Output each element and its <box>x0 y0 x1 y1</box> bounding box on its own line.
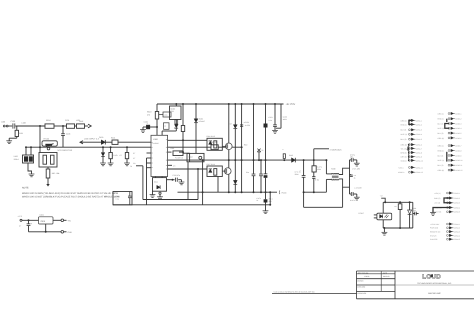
capacitor C100 (series) <box>12 123 14 128</box>
wire startup to IC top <box>175 128 177 131</box>
svg-text:GRN (1): GRN (1) <box>401 119 408 122</box>
svg-text:R10: R10 <box>244 144 247 147</box>
diode D101 on rail x=196 <box>195 103 197 105</box>
capacitor C111 box <box>113 192 132 205</box>
svg-text:NTC/VARISTOR: NTC/VARISTOR <box>58 149 73 152</box>
svg-text:CON1-12: CON1-12 <box>416 171 423 174</box>
svg-text:CON2-6: CON2-6 <box>455 137 461 140</box>
svg-text:CON4-4: CON4-4 <box>454 234 460 237</box>
svg-text:R117 C116: R117 C116 <box>207 163 215 166</box>
capacitor C110 + ground <box>156 126 158 128</box>
wire CON2 bracket <box>445 124 449 129</box>
svg-text:LINE: LINE <box>79 120 84 123</box>
svg-text:S-02 02-09-04 SCHEMATIC REV-: S-02 02-09-04 SCHEMATIC REV-B MACKIE-AMP… <box>274 291 315 294</box>
svg-text:ORG (6): ORG (6) <box>401 144 408 147</box>
svg-text:D103: D103 <box>289 154 293 157</box>
resistor network K100 box <box>39 153 57 168</box>
svg-text:+15V A: +15V A <box>398 166 404 169</box>
svg-text:CON1-8: CON1-8 <box>416 151 422 154</box>
svg-text:CON4-3: CON4-3 <box>454 231 460 234</box>
diode D103 on y=160.1 <box>292 158 296 163</box>
svg-text:C103: C103 <box>66 133 70 136</box>
svg-text:WHEN L90 IS NOT (GRN/BLK-FLK): WHEN L90 IS NOT (GRN/BLK-FLK) PLEASE R14… <box>22 196 120 199</box>
svg-text:GRN (1): GRN (1) <box>438 112 445 115</box>
wire R111 to Q102 box <box>183 152 190 154</box>
svg-text:CON1-5: CON1-5 <box>416 138 422 141</box>
svg-text:CON1-10: CON1-10 <box>416 159 423 162</box>
wire R105 lower stub <box>47 178 49 185</box>
svg-text:RT: RT <box>133 152 135 155</box>
svg-text:(+13.8V AUX: (+13.8V AUX <box>330 148 342 151</box>
transformer T100 aux winding box <box>155 177 157 178</box>
rail x=261 capacitor C118 <box>260 160 262 174</box>
svg-text:BLK (3): BLK (3) <box>401 129 407 132</box>
rail A x=303.6 with capacitor C124 <box>303 159 305 161</box>
wire snubber2 drop <box>217 177 219 193</box>
ground (aux right, via test point) <box>159 192 161 194</box>
wire primary bottom rail y=192.2 <box>304 191 327 193</box>
svg-text:C120: C120 <box>245 121 249 124</box>
svg-text:RED (2): RED (2) <box>401 123 408 126</box>
svg-text:GND: GND <box>68 231 73 234</box>
svg-text:C100: C100 <box>11 120 16 123</box>
svg-text:CON2-7: CON2-7 <box>455 145 461 148</box>
svg-text:ORG (6): ORG (6) <box>438 169 445 172</box>
wire return path A (y=204.8 long) <box>113 204 270 206</box>
svg-text:C121: C121 <box>269 116 273 119</box>
rail x=183 <box>182 103 184 105</box>
svg-text:CON3-2: CON3-2 <box>454 197 460 200</box>
svg-text:D101: D101 <box>199 118 203 121</box>
wire CON1 bracket top <box>409 120 413 124</box>
svg-text:L100: L100 <box>22 122 26 125</box>
wire right edge x=412.8 <box>412 202 414 228</box>
connector J100 AC input <box>3 125 5 127</box>
svg-text:C110: C110 <box>144 120 148 123</box>
svg-text:GND (2): GND (2) <box>434 197 441 200</box>
wire relay feed drop <box>39 126 41 153</box>
svg-text:CON1-7: CON1-7 <box>416 147 422 150</box>
resistor R111 <box>173 151 183 156</box>
svg-text:BLU (5): BLU (5) <box>438 164 444 167</box>
svg-text:R110: R110 <box>147 111 151 114</box>
svg-text:STATUS: STATUS <box>430 234 437 237</box>
net label S-GND <box>278 191 281 195</box>
zener Z1 <box>257 149 260 152</box>
wire primary pins <box>326 173 331 175</box>
net stub feedback top <box>381 198 385 202</box>
svg-text:WHT (4): WHT (4) <box>438 159 445 162</box>
wire CON1 bracket mid <box>408 145 410 161</box>
wire AC bus y=126 <box>8 125 12 127</box>
svg-text:J100: J100 <box>1 121 5 124</box>
resistor R105 <box>47 167 49 169</box>
wire +B bus y=104 <box>157 103 284 105</box>
svg-text:BRN (8): BRN (8) <box>401 151 408 154</box>
svg-text:NOTE:: NOTE: <box>22 187 29 190</box>
rail x=241.6 <box>241 103 243 105</box>
connector +5V out <box>61 219 64 222</box>
svg-text:R101: R101 <box>111 136 115 139</box>
svg-text:GRY (9): GRY (9) <box>401 156 408 159</box>
rail x=235.3 with diodes D107/D108 <box>234 103 236 105</box>
wire FB stub y=165.8 <box>136 165 143 167</box>
svg-text:CON1-4: CON1-4 <box>416 133 422 136</box>
svg-text:CON2-8: CON2-8 <box>455 149 461 152</box>
svg-text:MACKIE AMP: MACKIE AMP <box>428 292 441 295</box>
title block table rows <box>357 273 396 275</box>
svg-text:CON2-12: CON2-12 <box>455 169 462 172</box>
svg-text:CON3-1: CON3-1 <box>454 192 460 195</box>
svg-text:WHT (4): WHT (4) <box>438 127 445 130</box>
svg-text:Q102: Q102 <box>188 155 192 158</box>
svg-text:D100: D100 <box>99 136 103 139</box>
chassis ground (varistor) <box>28 163 32 174</box>
snubber box 1 (R116/C115/D105) <box>207 138 222 150</box>
capacitor C125 + ground, +17-18V out <box>350 159 352 161</box>
svg-text:C122: C122 <box>283 116 287 119</box>
wire secondary step bottom <box>339 179 350 187</box>
snubber box 2 (R117/C116/D106) <box>207 166 222 177</box>
connector GND out <box>61 231 64 234</box>
title block frame <box>357 270 474 272</box>
svg-text:R111: R111 <box>171 147 175 150</box>
transistor Q102 sub-circuit box <box>187 153 204 161</box>
svg-text:C?: C? <box>120 154 122 157</box>
diode D111 (aux rect) <box>157 185 160 189</box>
IC pin stubs left <box>147 152 152 154</box>
svg-text:1u 250: 1u 250 <box>245 124 250 127</box>
svg-text:CON1-2: CON1-2 <box>416 123 422 126</box>
svg-text:CON2-5: CON2-5 <box>455 132 461 135</box>
capacitor C121 + ground <box>274 103 276 105</box>
wire opto pins <box>374 214 377 216</box>
svg-text:CON2-2: CON2-2 <box>455 118 461 121</box>
resistor R101 <box>112 140 118 144</box>
svg-text:C+: C+ <box>19 224 21 227</box>
svg-text:PGND: PGND <box>282 191 288 194</box>
svg-text:R104: R104 <box>46 119 51 122</box>
ground (aux left) <box>152 191 154 194</box>
wire gate drive 2 y=169 <box>168 168 207 170</box>
wire y=142 <box>80 141 101 143</box>
wire CON3 long bracket <box>433 208 452 213</box>
rail x=253.5 capacitor C117 <box>253 103 255 105</box>
svg-text:CON4-5: CON4-5 <box>454 238 460 241</box>
svg-text:(+17-18V: (+17-18V <box>353 167 361 170</box>
node +13.8V AUX <box>313 149 315 160</box>
resistor R102 to ground <box>16 126 18 130</box>
svg-text:CON1-6: CON1-6 <box>416 144 422 147</box>
svg-text:CON4-2: CON4-2 <box>454 227 460 230</box>
svg-text:(-17-18V: (-17-18V <box>355 187 363 190</box>
svg-text:7805: 7805 <box>40 220 46 223</box>
ground mark (CON1) <box>407 147 409 150</box>
capacitor C122 <box>280 104 282 128</box>
svg-text:R113: R113 <box>174 126 178 129</box>
rail x=265.5 capacitor C119 <box>265 103 267 105</box>
wire primary return y=192.2 <box>178 191 278 193</box>
svg-text:R116 C115: R116 C115 <box>207 135 215 138</box>
wire varistor stubs <box>25 147 27 155</box>
capacitor C112 47u <box>167 179 175 181</box>
wire CON2C bracket <box>446 152 448 162</box>
svg-text:CON3-5: CON3-5 <box>454 211 460 214</box>
svg-text:CON3-3: CON3-3 <box>454 202 460 205</box>
rail C x=349.5 <box>349 160 351 194</box>
wire feedback bottom y=228 <box>383 227 413 229</box>
wire reg ground rail <box>29 231 62 233</box>
relay RY100 <box>42 141 57 146</box>
svg-text:BLK (3): BLK (3) <box>438 122 444 125</box>
wire opto bridge <box>382 202 384 213</box>
svg-text:CON4-1: CON4-1 <box>454 223 460 226</box>
op-amp U100 PWM controller <box>151 135 168 176</box>
capacitor C47u + ground branch <box>265 192 267 199</box>
wire IC pin drop x=146.5 <box>146 158 148 205</box>
wire Q102 box drop <box>187 162 189 200</box>
resistor R130 <box>399 202 401 204</box>
svg-text:BLK (3): BLK (3) <box>438 154 444 157</box>
svg-text:UF4007: UF4007 <box>199 120 205 123</box>
fuse F101 (series on bus) <box>67 124 75 128</box>
svg-text:+17.5: +17.5 <box>18 215 23 218</box>
svg-text:R 47k: R 47k <box>113 154 118 157</box>
capacitor C127 on rail C <box>350 174 353 176</box>
svg-text:CON1-1: CON1-1 <box>416 119 422 122</box>
wire secondary step top <box>339 168 350 174</box>
svg-text:BLU (5): BLU (5) <box>438 132 444 135</box>
wire CS stub y=165.3 <box>168 164 172 166</box>
svg-text:IC102: IC102 <box>170 108 175 111</box>
svg-text:PWR GND: PWR GND <box>430 227 439 230</box>
svg-text:390 - 39k: 390 - 39k <box>52 172 60 175</box>
wire gate drive 1 y=147.2 <box>168 146 211 148</box>
varistor V100 box <box>23 155 34 163</box>
svg-text:AGND A: AGND A <box>398 171 405 174</box>
ground (input filter) <box>6 140 12 142</box>
svg-text:RY100: RY100 <box>44 138 49 141</box>
fuse F102 on drive wire <box>283 154 285 159</box>
svg-text:PC/DRIVE: PC/DRIVE <box>175 157 184 160</box>
svg-text:VIO(10): VIO(10) <box>401 159 407 162</box>
svg-text:150LA: 150LA <box>14 158 20 161</box>
startup network box U102 <box>170 106 182 120</box>
capacitor C103 branch <box>62 126 64 134</box>
svg-text:CHASSIS: CHASSIS <box>430 238 438 241</box>
junction node bus/relay feed <box>39 125 41 127</box>
transistor Q101 MOSFET <box>225 168 232 175</box>
svg-text:CT: CT <box>133 157 135 160</box>
border line bottom <box>272 293 357 295</box>
svg-text:F101: F101 <box>65 119 69 122</box>
svg-text:CON2-11: CON2-11 <box>455 164 462 167</box>
svg-text:CON2-4: CON2-4 <box>455 127 461 130</box>
svg-text:+: + <box>300 169 301 172</box>
svg-text:WHT (4): WHT (4) <box>401 133 408 136</box>
svg-text:YEL (7): YEL (7) <box>401 147 407 150</box>
svg-text:47k: 47k <box>147 113 150 116</box>
svg-text:CON1-11: CON1-11 <box>416 166 423 169</box>
svg-text:CON2-3: CON2-3 <box>455 122 461 125</box>
ground (feedback) <box>383 228 385 232</box>
svg-text:LINE INPUT 2.2: LINE INPUT 2.2 <box>84 137 100 140</box>
svg-text:KA3842: KA3842 <box>153 142 159 145</box>
diode D102 to ground (line filter) <box>102 146 104 148</box>
svg-text:CON2-10: CON2-10 <box>455 159 462 162</box>
capacitor C130 <box>28 219 30 221</box>
svg-text:Z1: Z1 <box>262 149 264 152</box>
svg-text:C112 47u: C112 47u <box>173 174 181 177</box>
wire CON3 bracket U <box>444 198 452 203</box>
wire reg input <box>22 219 39 221</box>
svg-text:CON2-9: CON2-9 <box>455 154 461 157</box>
resistor R114 below startup box <box>175 120 177 125</box>
net arrow LINE INPUT <box>80 141 83 144</box>
svg-text:ORG (6): ORG (6) <box>438 137 445 140</box>
svg-text:U101: U101 <box>40 214 44 217</box>
wire line y=147 <box>26 146 151 148</box>
wire reg output <box>53 219 61 221</box>
resistor R118 <box>211 145 218 150</box>
diode D100 <box>101 140 105 145</box>
svg-text:CON1-9: CON1-9 <box>416 156 422 159</box>
svg-text:D111: D111 <box>154 180 158 183</box>
transistor Q100 MOSFET <box>226 143 233 150</box>
junction node bus/C103 <box>62 125 64 127</box>
wire FB y=152.1 <box>168 151 172 153</box>
wire bottom return y=207.3 <box>303 192 305 207</box>
regulator U101 7805 <box>39 217 54 224</box>
svg-text:+13.8V AUX: +13.8V AUX <box>430 223 440 226</box>
shunt reference U104 TL431 <box>409 202 411 210</box>
capacitor C131 stub <box>413 213 415 215</box>
svg-text:R102: R102 <box>19 132 23 135</box>
svg-text:TECHNOLOGIES INTERNATIONAL, IN: TECHNOLOGIES INTERNATIONAL, INC. <box>417 282 452 285</box>
svg-text:T100: T100 <box>331 167 335 170</box>
svg-text:REMOTE ON: REMOTE ON <box>430 231 441 234</box>
wire return path B (x=142.9 down, y=199.5 right) <box>142 166 144 200</box>
svg-text:-15V (3): -15V (3) <box>434 202 441 205</box>
svg-text:CON3-4: CON3-4 <box>454 206 460 209</box>
diode D104 <box>175 124 179 128</box>
net arrow LINE <box>88 124 91 128</box>
capacitor C126 + ground, -17-18V out <box>350 193 352 195</box>
svg-text:0.1u: 0.1u <box>269 119 272 122</box>
rail x=228.8 (Q100/Q101 drain chain) <box>228 103 230 105</box>
svg-text:PC817: PC817 <box>359 212 365 215</box>
svg-text:C+47u: C+47u <box>350 153 355 156</box>
svg-text:V100: V100 <box>14 155 18 158</box>
IC pin wire right (pin8 to snubber) <box>168 139 207 141</box>
svg-text:RED (2): RED (2) <box>438 149 445 152</box>
resistor R108 to ground <box>126 146 128 148</box>
capacitor C113 box <box>163 112 171 117</box>
svg-text:+B 170V: +B 170V <box>286 103 296 106</box>
wire feedback top y=202.3 <box>383 201 413 203</box>
wire drive y=160.1 <box>168 159 327 161</box>
wire return join x=270.2 <box>269 192 271 205</box>
svg-text:WHEN L90 IS GRN (YEL/BLK-FLK): WHEN L90 IS GRN (YEL/BLK-FLK) PLEASE R14… <box>22 192 119 195</box>
capacitor C114 box <box>164 123 170 130</box>
inductor L101 (series on bus) <box>77 124 85 128</box>
resistor R107 to ground <box>110 146 112 148</box>
svg-text:GRN (1): GRN (1) <box>438 145 445 148</box>
rail x=313.8 C/R branch <box>313 159 315 161</box>
svg-text:CON1-3: CON1-3 <box>416 129 422 132</box>
rail B x=326.4 (split at primary pins) <box>325 160 327 174</box>
net stub +17.5 input <box>20 219 22 221</box>
svg-text:RED (2): RED (2) <box>438 118 445 121</box>
svg-text:+15V (1): +15V (1) <box>434 192 441 195</box>
resistor R104 (series on bus) <box>45 124 54 128</box>
svg-text:C1u: C1u <box>246 171 249 174</box>
svg-text:CON2-1: CON2-1 <box>455 112 461 115</box>
svg-text:BLU (5): BLU (5) <box>401 138 407 141</box>
resistor R110 (startup) <box>156 104 158 112</box>
